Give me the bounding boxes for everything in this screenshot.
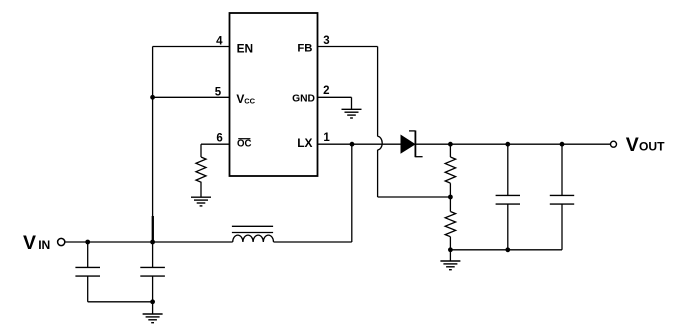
svg-text:4: 4: [216, 36, 223, 48]
svg-text:5: 5: [215, 86, 222, 98]
svg-text:V: V: [23, 232, 36, 254]
svg-text:2: 2: [323, 85, 329, 97]
svg-text:FB: FB: [297, 42, 312, 54]
svg-text:6: 6: [216, 133, 222, 145]
svg-text:CC: CC: [244, 96, 255, 105]
svg-text:GND: GND: [292, 93, 315, 104]
svg-text:LX: LX: [297, 136, 312, 150]
svg-text:IN: IN: [38, 238, 50, 252]
svg-text:1: 1: [323, 132, 330, 144]
svg-text:EN: EN: [237, 41, 254, 55]
svg-text:3: 3: [323, 35, 329, 47]
svg-text:V: V: [626, 134, 639, 156]
svg-text:OUT: OUT: [639, 139, 665, 153]
svg-text:OC: OC: [237, 138, 252, 149]
